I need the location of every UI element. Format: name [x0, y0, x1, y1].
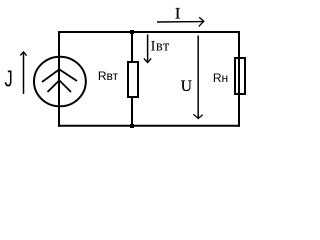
- resistor Rvt: [128, 62, 138, 97]
- wire bottom: [58, 125, 240, 127]
- node junction bottom: [130, 124, 134, 128]
- resistor Rn: [235, 58, 245, 94]
- current arrow Ivt: [147, 35, 149, 63]
- svg-text:Rн: Rн: [213, 71, 228, 85]
- svg-text:J: J: [5, 67, 13, 92]
- svg-text:Iвт: Iвт: [151, 38, 170, 54]
- wire Rvt branch top: [131, 32, 133, 62]
- current source upper chevron: [42, 69, 77, 82]
- svg-text:Rвт: Rвт: [98, 69, 119, 83]
- svg-text:I: I: [175, 6, 180, 23]
- svg-text:U: U: [181, 78, 192, 95]
- wire right branch: [238, 31, 240, 127]
- current source J circle: [34, 57, 86, 107]
- voltage arrow U: [197, 36, 199, 119]
- J label arrow: [23, 52, 25, 94]
- wire Rvt branch bottom: [131, 97, 133, 126]
- current source lower chevron: [48, 80, 72, 92]
- wire left branch: [58, 31, 60, 127]
- node junction top: [130, 30, 134, 34]
- current arrow I: [157, 21, 203, 23]
- wire top: [58, 31, 240, 33]
